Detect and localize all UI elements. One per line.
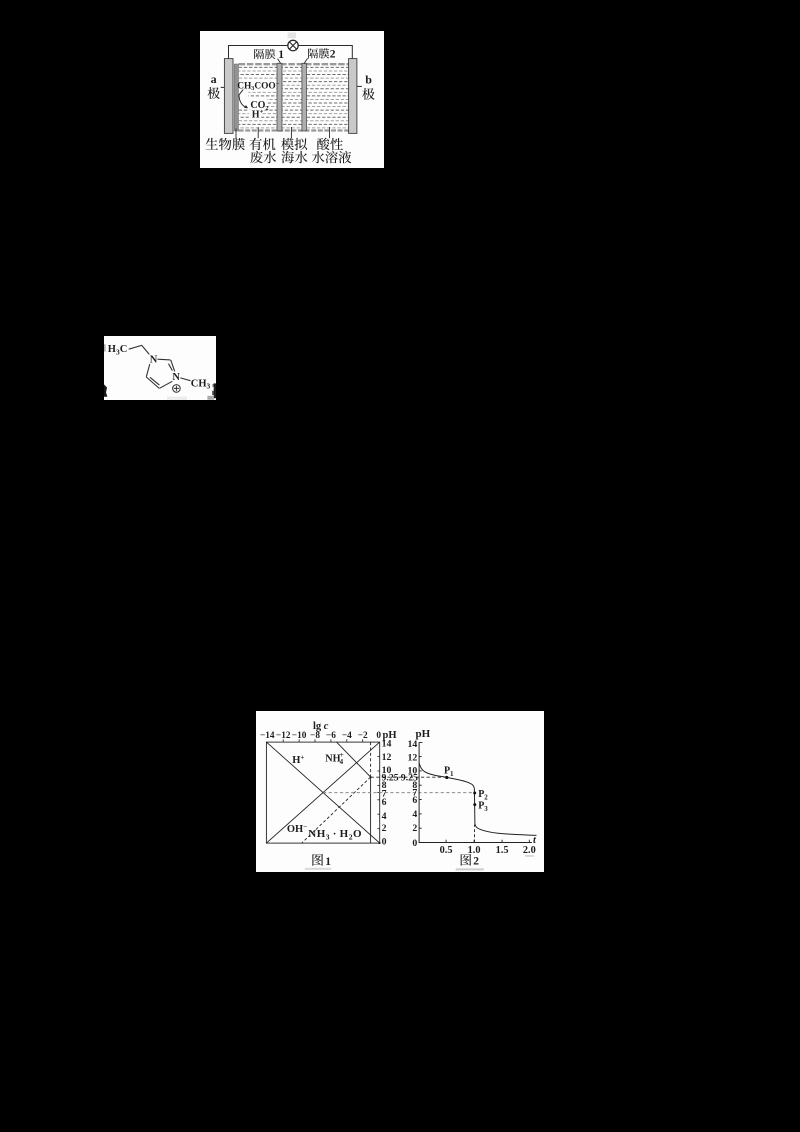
svg-text:0: 0: [412, 838, 417, 849]
graph 1 frame: [266, 742, 379, 843]
double bond C2=N3: [169, 360, 175, 371]
label b 极: [357, 73, 375, 100]
label a 极: [208, 72, 225, 99]
atom N3: [172, 372, 180, 383]
label OH-: [287, 823, 307, 835]
text CO2: [250, 100, 268, 112]
scan artifact above bulb: [288, 33, 296, 39]
vertex dot: [370, 776, 372, 778]
svg-text:4: 4: [412, 809, 417, 820]
double bond C4=C5: [146, 377, 159, 389]
text CH3COO-: [237, 80, 280, 92]
text H3C: [108, 344, 128, 356]
OH- line: [266, 742, 379, 843]
svg-text:−14: −14: [260, 731, 275, 741]
svg-text:N: N: [172, 372, 180, 383]
svg-text:N: N: [150, 355, 158, 366]
svg-text:b: b: [365, 73, 372, 87]
point P2: [473, 789, 488, 801]
graph 1 top axis labels lg c: [260, 721, 381, 741]
svg-text:12: 12: [382, 752, 392, 763]
bond C5-N1: [146, 364, 150, 377]
svg-text:2: 2: [484, 793, 488, 801]
tank bottom dashed band: [239, 129, 349, 131]
graph 1 right axis ticks: [377, 757, 379, 829]
figure 2: 1-ethyl-3-methylimidazolium cation: [104, 336, 216, 400]
svg-text:a: a: [211, 72, 217, 86]
svg-text:1.5: 1.5: [496, 845, 509, 856]
svg-text:2: 2: [382, 823, 387, 834]
svg-text:6: 6: [382, 797, 387, 808]
svg-text:pH: pH: [416, 728, 431, 740]
bond N3-CH3: [180, 378, 190, 381]
svg-text:2.0: 2.0: [523, 845, 536, 856]
svg-text:4: 4: [382, 811, 387, 822]
bracket remnant left: [104, 344, 107, 397]
svg-text:9.25: 9.25: [382, 773, 399, 784]
svg-text:0.5: 0.5: [440, 845, 453, 856]
titration curve: [419, 764, 536, 836]
graph 1 pH tick labels: [382, 739, 399, 848]
label 有机废水 with leader: [249, 127, 276, 163]
point P1: [444, 766, 454, 780]
liquid dashes: [239, 67, 349, 128]
svg-text:2: 2: [330, 49, 336, 61]
svg-text:0: 0: [382, 836, 387, 847]
label 生物膜 with leader: [206, 128, 245, 150]
graph 2 x labels: [440, 845, 536, 856]
caption 图2: [456, 854, 534, 870]
svg-text:NH: NH: [325, 753, 340, 764]
text H+: [252, 109, 264, 121]
dashed line pH 9.25 across to P1: [371, 776, 446, 778]
bulb (circle with X): [288, 40, 298, 50]
electrode b (right gray bar): [349, 59, 357, 134]
label 酸性水溶液 with leader: [312, 127, 351, 163]
electrode a (left gray bar): [224, 59, 233, 134]
t axis label: [533, 835, 537, 846]
graph 1 top axis ticks: [283, 739, 363, 742]
liquid surface (top dashed band): [239, 63, 349, 65]
svg-text:NH3 · H2O: NH3 · H2O: [308, 828, 362, 841]
white backing for compartment texts: [237, 80, 277, 119]
svg-text:+: +: [340, 751, 344, 759]
svg-text:CH3: CH3: [191, 378, 211, 390]
svg-text:−10: −10: [292, 731, 307, 741]
svg-text:12: 12: [408, 752, 418, 763]
svg-text:14: 14: [408, 739, 418, 750]
svg-text:CH3COO−: CH3COO−: [237, 80, 280, 92]
bracket remnant right with subscript: [207, 383, 216, 399]
svg-text:9.25: 9.25: [401, 773, 418, 784]
vertical dashed at t=1.0: [474, 825, 476, 843]
svg-text:H+: H+: [252, 109, 264, 121]
label H+: [292, 753, 304, 765]
H+ line: [266, 742, 379, 843]
NH3H2O dashed diagonal: [302, 777, 371, 843]
text CH3: [191, 378, 211, 390]
ethyl bonds to N1: [129, 345, 150, 354]
figure 3: graphs 图1 and 图2: [256, 711, 544, 872]
svg-text:−2: −2: [358, 731, 368, 741]
label NH3·H2O: [308, 828, 362, 841]
svg-text:OH−: OH−: [287, 823, 307, 835]
faint gray mark bottom center: [167, 397, 187, 400]
svg-text:1.0: 1.0: [468, 845, 481, 856]
membrane 1 (gray bar): [277, 63, 282, 131]
svg-text:3: 3: [484, 805, 488, 813]
atom N1: [150, 355, 158, 366]
graph 1 pH axis label: [383, 730, 397, 741]
label NH4+: [325, 751, 344, 766]
svg-text:−12: −12: [276, 731, 291, 741]
plus charge symbol: [173, 385, 181, 393]
svg-text:6: 6: [412, 795, 417, 806]
figure 1: microbial electrolysis cell: [200, 31, 384, 168]
svg-text:2: 2: [412, 823, 417, 834]
dashed line pH 7 across to P2: [323, 792, 475, 794]
label 模拟海水 with leader: [281, 127, 307, 163]
point P3: [473, 801, 488, 813]
graph 2 pH title: [416, 728, 431, 740]
caption 图1: [305, 854, 332, 870]
wire from electrode a to bulb: [229, 46, 289, 59]
svg-text:H+: H+: [292, 753, 304, 765]
svg-text:1: 1: [450, 770, 454, 778]
wire from bulb to electrode b: [298, 46, 352, 59]
arrow from acetate to biofilm and to CO2: [239, 90, 248, 109]
graph 2 x axis ticks: [446, 840, 529, 843]
biofilm (dark bar on electrode a): [234, 64, 238, 131]
svg-text:2: 2: [473, 856, 479, 868]
svg-text:−4: −4: [342, 731, 352, 741]
graph 2 y axis ticks: [419, 743, 422, 829]
svg-text:14: 14: [382, 739, 392, 750]
svg-text:−6: −6: [326, 731, 336, 741]
membrane 2 (gray bar): [302, 63, 307, 131]
vertical dashed at lg c=-1 above vertex: [370, 742, 372, 777]
label 隔膜2: [304, 48, 336, 64]
svg-text:t: t: [533, 835, 537, 846]
bond N1-C2: [158, 358, 171, 361]
svg-text:H3C: H3C: [108, 344, 128, 356]
bond N3-C4: [160, 381, 173, 388]
NH4+ line (diagonal + vertical at lg c=-1): [337, 742, 371, 843]
svg-text:−8: −8: [310, 731, 320, 741]
graph 2 y axis: [419, 742, 532, 842]
graph 2 y labels: [401, 739, 418, 849]
label 隔膜1: [254, 49, 284, 64]
corner dot: [379, 842, 381, 844]
svg-text:1: 1: [325, 856, 331, 868]
svg-text:1: 1: [278, 49, 284, 61]
